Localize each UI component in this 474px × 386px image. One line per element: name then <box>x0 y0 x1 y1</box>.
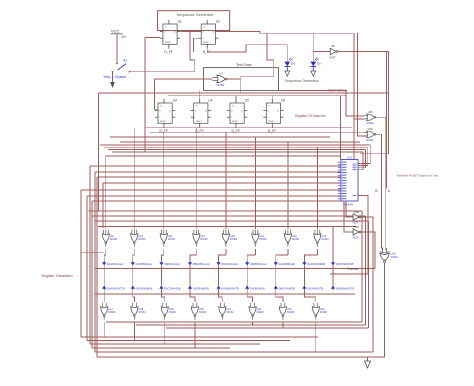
wire <box>218 266 220 286</box>
svg-text:DBANDOutput: DBANDOutput <box>164 263 181 266</box>
wire <box>168 95 346 97</box>
power VCC <box>111 29 126 39</box>
svg-text:NOR2: NOR2 <box>199 310 207 314</box>
wire U2 bottom to LED Da <box>207 45 287 62</box>
wire column <box>287 142 289 229</box>
wire <box>276 290 283 302</box>
gate U11 NOR3 <box>160 230 175 247</box>
svg-text:Register Of Data Info: Register Of Data Info <box>295 114 326 118</box>
svg-text:U26: U26 <box>368 127 373 131</box>
svg-text:NOR3: NOR3 <box>110 237 118 241</box>
wire <box>106 321 362 323</box>
wire <box>363 232 375 269</box>
svg-text:Test Data: Test Data <box>236 63 253 67</box>
gate U30 XOR2 <box>380 248 398 263</box>
svg-text:NOT: NOT <box>353 236 359 240</box>
wire <box>133 290 135 302</box>
wire <box>103 266 105 286</box>
wire gate output <box>164 322 166 344</box>
wire gate output <box>282 322 284 328</box>
wire bottom bus <box>81 336 318 338</box>
svg-text:S1: S1 <box>123 59 127 63</box>
svg-text:NOT: NOT <box>329 56 336 60</box>
svg-text:Q: Q <box>169 111 171 113</box>
svg-text:NOR3: NOR3 <box>168 237 176 241</box>
wire gate2 output <box>375 134 382 250</box>
wire FF4 preset <box>271 96 273 99</box>
svg-text:Q: Q <box>174 32 176 34</box>
svg-text:Sequence Generator: Sequence Generator <box>285 79 320 83</box>
connector DANANORGTB <box>217 284 240 290</box>
connector DNORANOTB <box>302 284 323 290</box>
wire <box>316 249 318 255</box>
connector DNORAMBOB <box>131 284 153 290</box>
svg-text:Da: Da <box>291 61 295 65</box>
svg-text:DNCTAIANOB: DNCTAIANOB <box>164 287 181 290</box>
wire bus <box>108 149 366 151</box>
svg-text:NOR2: NOR2 <box>366 138 374 142</box>
connector DBANDOutput <box>159 261 180 269</box>
gate U17 NOR2 <box>101 303 116 320</box>
wire <box>303 266 305 286</box>
wire test pattern top <box>99 92 389 94</box>
wire chip feed <box>97 176 341 178</box>
svg-text:XOR2: XOR2 <box>391 255 399 259</box>
svg-text:U5: U5 <box>245 99 249 103</box>
svg-text:Q: Q <box>212 32 214 34</box>
wire FF2 preset <box>199 90 201 98</box>
gate U10 NOR3 <box>131 230 146 247</box>
svg-text:Q: Q <box>241 111 243 113</box>
wire <box>103 290 105 302</box>
svg-text:U29: U29 <box>354 225 360 229</box>
connector DAANNORGTB <box>102 284 125 290</box>
svg-text:U2: U2 <box>216 20 220 24</box>
svg-text:Db: Db <box>317 61 321 65</box>
wire <box>80 190 82 337</box>
svg-text:RESET: RESET <box>232 121 239 123</box>
wire <box>346 201 350 217</box>
gate U14 NOR3 <box>252 230 267 247</box>
wire <box>239 79 241 93</box>
gate U13 NOR3 <box>222 230 237 247</box>
flip-flop U5 <box>227 99 249 133</box>
wire <box>304 290 315 302</box>
wire <box>332 227 334 262</box>
ground arrow <box>365 361 371 368</box>
wire <box>247 290 252 302</box>
wire column <box>163 132 165 229</box>
gate U23 NOR2 <box>279 303 294 320</box>
wire bus <box>150 131 364 133</box>
gate U15 NOR3 <box>284 230 299 247</box>
svg-text:DNORAMGOTB: DNORAMGOTB <box>336 287 355 290</box>
svg-text:→: → <box>191 284 193 286</box>
wire <box>92 216 366 325</box>
wire bottom bus <box>92 347 230 349</box>
svg-text:DNORAMOB: DNORAMOB <box>250 287 265 290</box>
wire gate output <box>252 322 254 325</box>
svg-text:DNORAMBOB: DNORAMBOB <box>136 287 153 290</box>
svg-text:U8: U8 <box>331 44 335 48</box>
wire <box>385 52 387 189</box>
gate U28 NOT <box>350 210 364 225</box>
svg-text:→: → <box>163 284 165 286</box>
svg-text:Outside: Outside <box>347 267 359 271</box>
wire <box>190 290 195 302</box>
svg-text:DAANNORGTB: DAANNORGTB <box>107 287 125 290</box>
gate U18 NOR2 <box>131 303 146 320</box>
wire <box>166 327 369 329</box>
gate U16 NOR3 <box>314 230 329 247</box>
wire U1.D feed <box>145 38 160 153</box>
wire gate output <box>194 322 196 348</box>
wire <box>358 152 363 170</box>
connector DNORBOutput <box>245 261 267 269</box>
connector DNORAMGOTB <box>331 284 354 290</box>
svg-text:U25: U25 <box>368 110 373 114</box>
connector DNORAOutput <box>217 261 239 269</box>
switch S1 <box>104 59 131 79</box>
connector DAORBOutput <box>131 261 153 269</box>
svg-text:NOR3: NOR3 <box>259 237 267 241</box>
wire bus <box>104 146 368 148</box>
svg-text:NOR2: NOR2 <box>257 310 265 314</box>
svg-text:DNORANKOB: DNORANKOB <box>193 287 209 290</box>
wire bus <box>112 151 363 153</box>
svg-text:D_FF: D_FF <box>164 50 172 54</box>
svg-text:5V: 5V <box>122 35 127 39</box>
svg-text:RESET: RESET <box>196 121 203 123</box>
svg-text:DAANDOutput: DAANDOutput <box>107 263 124 266</box>
connector DAANDNORGB <box>302 261 325 269</box>
connector DNCTAIANOB <box>159 284 180 290</box>
wire <box>358 147 368 165</box>
IC U27 74154N <box>338 156 358 207</box>
wire <box>136 324 366 326</box>
svg-text:TackSile A NOT Data Is In Use: TackSile A NOT Data Is In Use <box>397 173 439 177</box>
LED Da <box>284 57 295 71</box>
wire bus <box>100 144 370 146</box>
svg-text:NOR3: NOR3 <box>230 237 238 241</box>
wire <box>112 72 114 81</box>
gate U21 NOR2 <box>219 303 234 320</box>
gate U26 NOR2 <box>364 127 378 142</box>
svg-text:DAORBOutput: DAORBOutput <box>136 263 153 266</box>
svg-text:NOR2: NOR2 <box>169 310 177 314</box>
svg-text:RESET: RESET <box>165 42 172 44</box>
svg-text:→: → <box>134 284 136 286</box>
wire gate1 output <box>375 117 386 250</box>
svg-text:RESET: RESET <box>160 121 167 123</box>
svg-text:NOR3: NOR3 <box>200 237 208 241</box>
wire bus <box>110 136 330 138</box>
wire <box>279 90 364 116</box>
svg-text:DANANORGTB: DANANORGTB <box>221 287 239 290</box>
svg-text:DAANDNORGB: DAANDNORGB <box>307 263 325 266</box>
gate U19 NOR2 <box>161 303 176 320</box>
svg-text:NOR2: NOR2 <box>108 310 116 314</box>
wire <box>225 249 227 255</box>
wire <box>189 266 191 286</box>
wire <box>116 34 118 63</box>
svg-text:DAANDROutB: DAANDROutB <box>279 263 296 266</box>
wire <box>133 249 135 255</box>
wire chip feed <box>106 155 341 157</box>
svg-text:U28: U28 <box>354 210 360 214</box>
svg-text:U3: U3 <box>173 99 177 103</box>
wire <box>358 150 366 168</box>
gate U12 NOR3 <box>193 230 208 247</box>
wire column <box>105 156 107 229</box>
wire chip feed <box>90 165 341 167</box>
wire bus <box>120 141 360 143</box>
wire <box>254 249 256 255</box>
wire <box>98 226 356 228</box>
wire column <box>254 137 256 229</box>
ground <box>110 82 115 88</box>
wire <box>344 201 350 232</box>
wire bottom bus <box>95 351 373 353</box>
wire chip feed <box>92 200 341 202</box>
wire <box>95 268 375 270</box>
wire <box>332 266 334 286</box>
wire chip feed <box>87 195 341 197</box>
svg-text:Q: Q <box>277 111 279 113</box>
wire NOR input <box>154 79 212 110</box>
wire <box>287 249 289 255</box>
svg-text:U27: U27 <box>347 156 353 160</box>
wire <box>330 273 368 275</box>
svg-text:→: → <box>220 284 222 286</box>
wire <box>96 177 98 357</box>
wire <box>354 118 364 120</box>
svg-text:NOR3: NOR3 <box>138 237 146 241</box>
svg-text:→: → <box>277 284 279 286</box>
wire <box>160 266 162 286</box>
connector DBORBOutput <box>188 261 210 269</box>
wire <box>367 357 369 361</box>
connector DAANDOutput <box>102 261 123 269</box>
svg-text:NOR3: NOR3 <box>292 237 300 241</box>
wire to LED Db and NOT input <box>313 33 330 61</box>
section box Test Data <box>204 68 279 91</box>
gate U25 NOR2 <box>364 110 378 125</box>
wire gate output <box>133 322 135 340</box>
wire chip output <box>358 196 368 275</box>
wire <box>81 252 104 254</box>
connector DNOTARANOB <box>331 261 354 269</box>
ground arrow under Db <box>311 71 316 76</box>
wire XOR output <box>368 263 385 357</box>
flip-flop U4 <box>191 99 213 133</box>
wire <box>89 211 363 322</box>
svg-text:DNOTARANOB: DNOTARANOB <box>336 263 354 266</box>
wire chip feed <box>81 189 341 191</box>
svg-text:Sequence Generator: Sequence Generator <box>177 12 215 17</box>
svg-text:NOR2: NOR2 <box>217 83 225 87</box>
wire <box>94 172 96 352</box>
wire <box>161 290 164 302</box>
svg-text:Register Translation: Register Translation <box>42 274 73 278</box>
svg-text:U6: U6 <box>281 99 285 103</box>
wire column <box>316 147 318 229</box>
wire <box>98 93 100 211</box>
gate U24 NOR2 <box>312 303 327 320</box>
wire <box>95 221 369 328</box>
svg-text:DNOTAAMOB: DNOTAAMOB <box>279 287 295 290</box>
wire chip right feeds <box>358 145 370 164</box>
wire <box>195 249 197 255</box>
gate U7 NOR2 <box>213 71 228 87</box>
svg-text:U7: U7 <box>219 71 223 75</box>
wire NOT output net A <box>338 52 389 154</box>
flip-flop U1 <box>160 20 182 54</box>
gate U9 NOR3 <box>102 230 117 247</box>
svg-text:DBORBOutput: DBORBOutput <box>193 263 210 266</box>
wire <box>91 201 93 348</box>
wire <box>86 196 88 341</box>
svg-text:RESET: RESET <box>268 121 275 123</box>
svg-text:NOR2: NOR2 <box>138 310 146 314</box>
wire <box>358 33 367 136</box>
svg-text:NOR2: NOR2 <box>366 121 374 125</box>
wire <box>363 217 373 352</box>
svg-text:DNORBOutput: DNORBOutput <box>250 263 267 266</box>
wire column <box>225 132 227 229</box>
svg-text:→: → <box>248 284 250 286</box>
flip-flop U3 <box>155 99 177 133</box>
wire FF3 preset <box>235 96 237 99</box>
svg-text:Key = Space: Key = Space <box>104 74 128 79</box>
svg-text:Q: Q <box>205 111 207 113</box>
svg-text:DNORANOTB: DNORANOTB <box>307 287 323 290</box>
wire <box>340 96 342 160</box>
wire U1.Q to U2.D <box>181 31 199 33</box>
LED Db <box>310 57 321 71</box>
wire gate output <box>221 321 223 323</box>
svg-text:U4: U4 <box>208 99 212 103</box>
connector DNOTAAMOB <box>274 284 295 290</box>
wire <box>102 183 104 228</box>
section box Sequence Generator <box>158 11 230 31</box>
svg-text:NOR2: NOR2 <box>287 310 295 314</box>
wire switch output <box>130 32 195 72</box>
wire <box>105 249 107 255</box>
wire <box>246 266 248 286</box>
gate U22 NOR2 <box>249 303 264 320</box>
wire <box>132 266 134 286</box>
wire chip feed <box>95 171 341 173</box>
connector DNORAMOB <box>245 284 265 290</box>
wire NOR output <box>227 33 274 79</box>
flip-flop U2 <box>198 20 220 54</box>
svg-text:DNORAOutput: DNORAOutput <box>221 263 238 266</box>
svg-text:NOR3: NOR3 <box>321 237 329 241</box>
wire <box>95 293 355 295</box>
svg-text:VCC: VCC <box>111 29 120 34</box>
svg-text:NOR2: NOR2 <box>226 310 234 314</box>
ground arrow under Da <box>285 71 290 76</box>
wire U2 clock feed <box>194 38 199 52</box>
wire U2.Q to right <box>219 32 353 34</box>
wire bus under registers <box>145 127 352 129</box>
wire <box>89 166 91 344</box>
gate U29 NOT <box>350 225 364 240</box>
wire bottom bus <box>87 340 290 342</box>
svg-text:→: → <box>105 284 107 286</box>
wire bottom bus <box>97 356 385 358</box>
wire <box>219 290 223 302</box>
svg-text:NOR2: NOR2 <box>320 310 328 314</box>
svg-text:RESET: RESET <box>203 42 210 44</box>
wire column <box>133 128 135 229</box>
wire gate output <box>315 322 317 352</box>
gate U8 NOT (top right) <box>329 44 338 60</box>
svg-text:→: → <box>306 284 308 286</box>
wire chip feed <box>103 182 341 184</box>
wire <box>163 249 165 255</box>
wire column <box>195 128 197 229</box>
flip-flop U6 <box>263 99 285 133</box>
svg-text:U1: U1 <box>178 20 182 24</box>
wire bottom bus <box>90 343 260 345</box>
connector DNORANKOB <box>188 284 209 290</box>
svg-text:→: → <box>334 284 336 286</box>
connector DAANDROutB <box>274 261 295 269</box>
wire <box>275 266 277 286</box>
wire gate output <box>103 322 105 337</box>
wire <box>353 33 355 159</box>
gate U20 NOR2 <box>191 303 206 320</box>
